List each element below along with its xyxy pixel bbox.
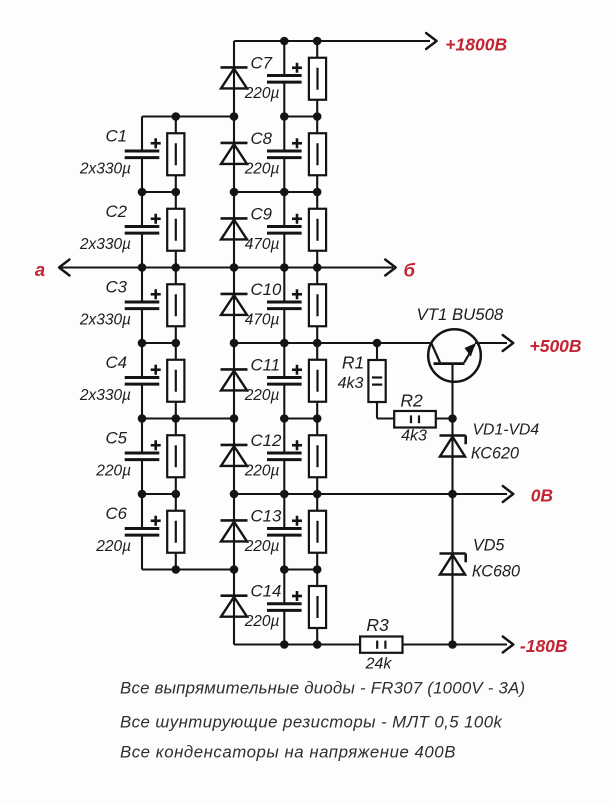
svg-text:C13: C13 — [251, 506, 282, 525]
resistor shunt of C10 — [309, 284, 326, 326]
capacitor C13 — [267, 527, 302, 530]
wire row5 left — [142, 417, 234, 419]
svg-text:220µ: 220µ — [244, 462, 280, 479]
node a input arrow — [59, 260, 70, 276]
svg-text:КС620: КС620 — [471, 445, 519, 463]
capacitor C1 — [125, 150, 160, 153]
svg-text:VT1 BU508: VT1 BU508 — [417, 305, 504, 324]
svg-text:4k3: 4k3 — [338, 375, 364, 392]
svg-text:Все конденсаторы на напряжение: Все конденсаторы на напряжение 400В — [120, 743, 456, 762]
wire left capacitor column — [141, 117, 143, 152]
svg-text:КС680: КС680 — [472, 563, 520, 581]
resistor shunt of C11 — [309, 360, 326, 402]
resistor R2 — [394, 411, 436, 428]
resistor shunt of C3 — [167, 284, 184, 326]
svg-text:470µ: 470µ — [245, 236, 280, 253]
capacitor C9 — [267, 225, 302, 228]
resistor shunt of C1 — [167, 133, 184, 175]
wire 0V rail — [234, 493, 507, 495]
svg-text:C6: C6 — [106, 504, 128, 523]
rectifier diode 8 — [221, 594, 248, 597]
svg-text:24k: 24k — [365, 656, 393, 673]
svg-text:2x330µ: 2x330µ — [79, 160, 131, 177]
capacitor C7 — [267, 74, 302, 77]
svg-text:Все выпрямительные диоды - FR3: Все выпрямительные диоды - FR307 (1000V … — [120, 679, 525, 698]
transistor VT1 — [428, 329, 481, 382]
capacitor C5 — [125, 452, 160, 455]
resistor shunt of C14 — [309, 586, 326, 628]
capacitor C6 — [125, 527, 160, 530]
rectifier diode 3 — [221, 217, 248, 220]
zener diodes VD1-VD4 — [440, 434, 466, 437]
node +500V output arrow — [503, 335, 514, 351]
svg-text:C5: C5 — [106, 428, 128, 447]
wire row2 right — [234, 191, 317, 193]
svg-text:2x330µ: 2x330µ — [79, 387, 131, 404]
wire row7 left — [142, 568, 234, 570]
capacitor C11 — [267, 376, 302, 379]
rectifier diode 1 — [221, 66, 248, 69]
resistor shunt of C12 — [309, 435, 326, 477]
svg-text:220µ: 220µ — [95, 462, 131, 479]
svg-text:C3: C3 — [106, 277, 128, 296]
wire row1 left — [142, 115, 234, 117]
node b input arrow — [385, 260, 396, 276]
wire R1 branch — [376, 343, 378, 419]
resistor shunt of C7 — [309, 58, 326, 100]
zener diode VD5 — [440, 552, 466, 555]
svg-text:-180В: -180В — [520, 636, 568, 656]
svg-text:C12: C12 — [251, 431, 282, 450]
wire row4 left — [142, 342, 176, 344]
resistor shunt of C4 — [167, 360, 184, 402]
svg-text:220µ: 220µ — [244, 538, 280, 555]
resistor shunt of C2 — [167, 209, 184, 251]
svg-text:C2: C2 — [106, 202, 128, 221]
svg-text:C9: C9 — [251, 204, 272, 223]
wire transistor base / zener column — [451, 364, 453, 645]
resistor shunt of C9 — [309, 209, 326, 251]
wire top rail +1800V row — [234, 40, 430, 42]
svg-text:C8: C8 — [251, 129, 273, 148]
wire -180V rail — [234, 643, 507, 645]
wire diode column — [233, 41, 235, 645]
rectifier diode 4 — [221, 293, 248, 296]
resistor shunt of C6 — [167, 511, 184, 553]
svg-text:VD5: VD5 — [473, 537, 505, 555]
svg-text:2x330µ: 2x330µ — [79, 311, 131, 328]
rectifier diode 7 — [221, 519, 248, 522]
capacitor C3 — [125, 301, 160, 304]
svg-text:+500В: +500В — [530, 336, 582, 356]
svg-text:220µ: 220µ — [244, 387, 280, 404]
capacitor C8 — [267, 150, 302, 153]
svg-text:220µ: 220µ — [244, 85, 280, 102]
svg-text:2x330µ: 2x330µ — [79, 236, 131, 253]
wire row4 right to transistor base — [234, 342, 432, 344]
wire row6 left — [142, 493, 176, 495]
svg-text:б: б — [404, 260, 416, 281]
resistor R1 — [368, 360, 385, 402]
wire row a-b input — [61, 266, 393, 268]
wire row2 left — [142, 191, 176, 193]
svg-text:R1: R1 — [342, 353, 364, 373]
wire emitter to +500V — [475, 342, 507, 344]
node +1800V output arrow — [426, 33, 437, 49]
svg-text:а: а — [35, 259, 45, 280]
capacitor C12 — [267, 452, 302, 455]
rectifier diode 5 — [221, 368, 248, 371]
svg-text:R3: R3 — [366, 615, 389, 635]
svg-text:C14: C14 — [251, 582, 282, 601]
svg-text:R2: R2 — [400, 391, 423, 411]
svg-text:C7: C7 — [251, 53, 273, 72]
node junction dots — [280, 37, 289, 46]
svg-text:0В: 0В — [531, 486, 553, 506]
wire row5 right — [284, 417, 317, 419]
capacitor C14 — [267, 602, 302, 605]
svg-text:C4: C4 — [106, 353, 127, 372]
svg-text:220µ: 220µ — [244, 613, 280, 630]
wire right resistor column — [316, 41, 318, 645]
node 0V output arrow — [503, 486, 514, 502]
svg-text:Все шунтирующие резисторы - МЛ: Все шунтирующие резисторы - МЛТ 0,5 100k — [120, 713, 503, 732]
resistor shunt of C8 — [309, 133, 326, 175]
resistor R3 — [360, 637, 402, 653]
capacitor C10 — [267, 301, 302, 304]
wire right capacitor column — [283, 41, 285, 76]
wire row7 right — [284, 568, 317, 570]
svg-text:470µ: 470µ — [245, 311, 280, 328]
capacitor C4 — [125, 376, 160, 379]
resistor shunt of C13 — [309, 511, 326, 553]
svg-text:C11: C11 — [251, 355, 281, 374]
wire R2 to base node — [435, 417, 453, 419]
svg-text:VD1-VD4: VD1-VD4 — [473, 422, 540, 439]
wire row1 right — [284, 115, 317, 117]
svg-text:4k3: 4k3 — [401, 428, 427, 445]
resistor shunt of C5 — [167, 435, 184, 477]
rectifier diode 2 — [221, 142, 248, 145]
svg-text:+1800В: +1800В — [445, 35, 507, 55]
wire left resistor column — [175, 117, 177, 570]
svg-text:220µ: 220µ — [244, 160, 280, 177]
svg-text:C10: C10 — [251, 280, 282, 299]
rectifier diode 6 — [221, 444, 248, 447]
svg-text:220µ: 220µ — [95, 538, 131, 555]
capacitor C2 — [125, 225, 160, 228]
svg-text:C1: C1 — [106, 126, 127, 145]
node -180V output arrow — [503, 637, 514, 653]
